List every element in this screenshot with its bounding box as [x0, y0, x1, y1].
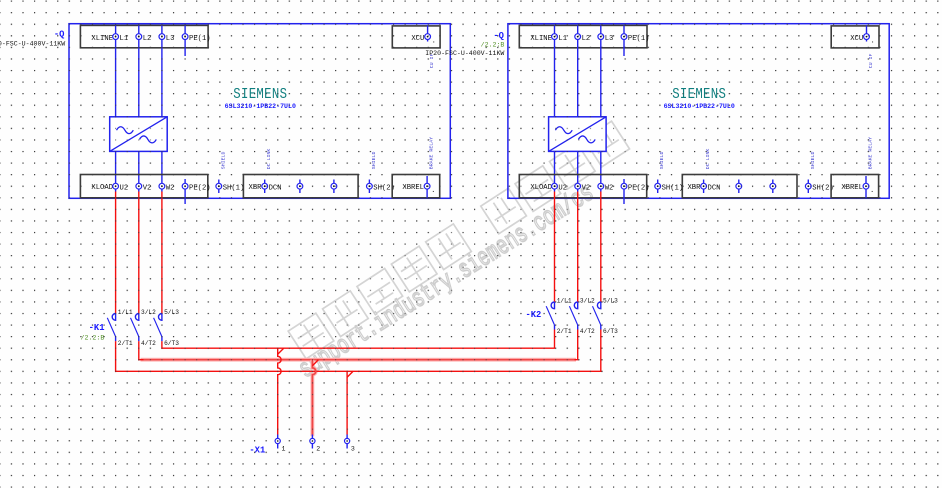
wire U2->K2 pole1 (right)	[554, 192, 556, 302]
AC sine bottom U2	[578, 136, 595, 143]
contactor pole 1/L1/2/T1 moving contact	[107, 318, 115, 337]
terminal X1:1	[277, 435, 279, 449]
U2 XCU box	[831, 26, 879, 48]
U1 XBR box	[243, 175, 358, 198]
terminal W2 U1	[159, 183, 165, 189]
contactor pole 3/L2/4/T2 fixed contact arc	[574, 302, 577, 309]
contactor pole 1/L1/2/T1 fixed contact arc	[112, 313, 115, 320]
terminal PE(2) U1	[182, 183, 188, 189]
terminal L3 U2	[598, 34, 604, 40]
contactor pole 5/L3/6/T3 fixed contact arc	[597, 302, 600, 309]
watermark (decorative)	[288, 121, 629, 359]
terminal V2 U2	[575, 183, 581, 189]
AC sine top U2	[555, 127, 572, 134]
spare terminal U1	[299, 180, 301, 194]
terminal L1 U2	[552, 34, 558, 40]
wire L1 U2	[554, 25, 556, 116]
terminal W2 U2	[598, 183, 604, 189]
highlighted wire (pink) drop to X1:2	[312, 360, 315, 437]
terminal X1:2	[311, 435, 313, 449]
U1 XLINE terminal box	[80, 25, 208, 47]
terminal PE(1) U2	[621, 34, 627, 40]
terminal U2 U2	[552, 183, 558, 189]
terminal SH(1) U1	[218, 180, 220, 194]
terminal DCN U2	[703, 180, 705, 194]
contactor pole 3/L2/4/T2 fixed contact arc	[135, 313, 138, 320]
branch wire to X1:3	[346, 371, 348, 434]
wire W2->K2 pole3 (right)	[600, 192, 602, 302]
frequency converter symbol U2	[549, 117, 607, 152]
frequency converter symbol U1	[110, 117, 168, 152]
terminal PE(2) stub U1	[184, 179, 186, 204]
terminal L3 U1	[159, 34, 165, 40]
terminal L2 U2	[575, 34, 581, 40]
wire K1 pole3 to bus A	[162, 330, 555, 349]
contactor pole 1/L1/2/T1 fixed contact arc	[551, 302, 554, 309]
wire L3 U1	[161, 25, 163, 116]
terminal X1:3	[346, 435, 348, 449]
AC sine bottom U1	[140, 136, 157, 143]
spare terminal U2	[772, 180, 774, 194]
U2 XLOAD terminal box	[519, 175, 646, 198]
terminal U2 U1	[113, 183, 119, 189]
wire L2 U1	[138, 25, 140, 116]
contactor pole 3/L2/4/T2 moving contact	[131, 318, 139, 337]
U2 XLINE terminal box	[519, 25, 647, 47]
contactor pole 5/L3/6/T3 moving contact	[154, 318, 162, 337]
terminal PE(1) stub U2	[623, 25, 625, 56]
terminal SH(2) U2	[807, 180, 809, 194]
wire U2->K1 pole1	[115, 192, 117, 314]
terminal PE(1) U1	[182, 34, 188, 40]
wire V2->K1 pole2	[138, 192, 140, 314]
spare terminal U1	[333, 180, 335, 194]
terminal V2 U1	[136, 183, 142, 189]
wire W2->K1 pole3	[161, 192, 163, 314]
U2 XBR box	[682, 175, 797, 198]
contactor pole 5/L3/6/T3 fixed contact arc	[158, 313, 161, 320]
wire K1 pole1 to bus C	[116, 330, 601, 372]
wire L1 U1	[115, 25, 117, 116]
wire L2 U2	[577, 25, 579, 116]
U2 XBREL box	[831, 175, 879, 198]
terminal XBREL stub U1	[426, 176, 428, 198]
terminal XCU stub	[427, 25, 429, 41]
contactor pole 3/L2/4/T2 moving contact	[569, 306, 577, 325]
AC sine top U1	[117, 127, 134, 134]
U1 XLOAD terminal box	[80, 175, 207, 198]
contactor pole 1/L1/2/T1 moving contact	[546, 306, 554, 325]
terminal XCU stub	[866, 25, 868, 41]
wire L3 U2	[600, 25, 602, 116]
wire V2->K2 pole2 (right)	[577, 192, 579, 302]
terminal PE(2) stub U2	[623, 179, 625, 204]
U1 XCU box	[392, 26, 440, 48]
branch wire to X1:2 with jump	[312, 360, 315, 435]
terminal L1 U1	[113, 34, 119, 40]
terminal SH(1) U2	[657, 180, 659, 194]
contactor pole 5/L3/6/T3 moving contact	[593, 306, 601, 325]
terminal DCN U1	[264, 180, 266, 194]
highlighted wire (pink) middle bus	[141, 358, 577, 362]
wires U2 V2 W2 U2	[554, 151, 556, 191]
spare terminal U2	[738, 180, 740, 194]
terminal PE(1) stub U1	[184, 25, 186, 56]
terminal SH(2) U1	[368, 180, 370, 194]
wire K1 pole2 to bus B (corner ends)	[139, 341, 144, 360]
branch wire to X1:1 with jumps	[278, 348, 281, 434]
power module U2 outer box	[508, 24, 889, 199]
terminal PE(2) U2	[621, 183, 627, 189]
terminal XBREL stub U2	[865, 176, 867, 198]
U1 XBREL box	[392, 175, 440, 198]
power module U1 outer box	[69, 24, 450, 199]
wires U2 V2 W2 U1	[115, 151, 117, 191]
terminal L2 U1	[136, 34, 142, 40]
